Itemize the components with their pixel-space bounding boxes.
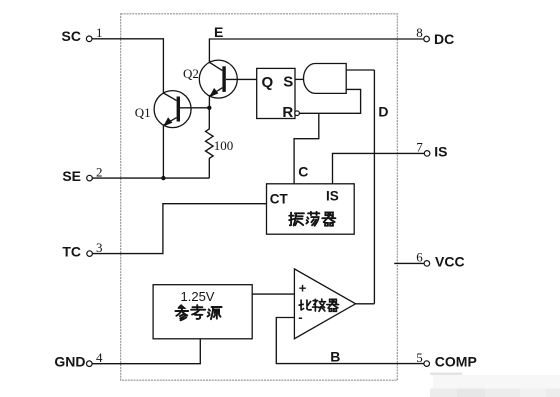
pin 7 terminal IS <box>416 140 447 160</box>
svg-text:CT: CT <box>270 192 289 207</box>
svg-text:VCC: VCC <box>435 253 465 269</box>
wire node D: comparator output to AND gate <box>373 70 375 304</box>
watermark remnant bottom right <box>430 373 560 397</box>
IC boundary dashed box <box>121 14 398 380</box>
svg-text:Q1: Q1 <box>135 105 151 120</box>
svg-text:E: E <box>214 24 223 40</box>
svg-text:1: 1 <box>96 25 103 40</box>
comparator label 比较器 (drawn glyphs) <box>299 299 338 311</box>
R input bubble <box>295 111 300 116</box>
resistor 100 <box>206 108 234 178</box>
wire node C: oscillator output branch <box>294 113 319 184</box>
svg-text:TC: TC <box>62 243 81 259</box>
wire node E: Q2 collector to pin 8 <box>209 39 423 62</box>
comparator U6 <box>294 269 355 339</box>
wire Q2 base to latch Q output <box>226 78 257 80</box>
wire AND input 1 from node D <box>346 69 374 71</box>
oscillator label 振荡器 (drawn glyphs) <box>289 212 335 226</box>
wire comparator output to node D <box>356 303 375 305</box>
svg-text:5: 5 <box>416 350 423 365</box>
wire pin4 GND to reference block <box>92 339 200 364</box>
svg-text:GND: GND <box>54 354 85 370</box>
wire pin 6 VCC stub <box>394 262 424 264</box>
wire Q1 base to node <box>180 107 209 109</box>
wire AND output to latch S input <box>295 78 304 80</box>
svg-text:R: R <box>282 104 293 121</box>
svg-text:SE: SE <box>62 168 81 184</box>
svg-text:8: 8 <box>416 25 423 40</box>
wire node B: comparator inverting input to pin 5 <box>276 318 424 364</box>
svg-text:7: 7 <box>416 140 423 155</box>
reference label 参考源 (drawn glyphs) <box>175 305 221 320</box>
wire pin1 SC to Q1 collector <box>92 39 163 93</box>
svg-text:S: S <box>283 73 293 90</box>
svg-text:3: 3 <box>96 240 103 255</box>
transistor Q2 <box>183 60 237 98</box>
svg-text:B: B <box>330 349 340 365</box>
wire pin 7 to oscillator IS input <box>333 153 425 183</box>
transistor Q1 <box>135 91 191 128</box>
pin 6 terminal VCC <box>416 250 464 270</box>
wire AND input 2 / latch R from oscillator <box>299 89 360 113</box>
pin 2 terminal SE <box>62 164 102 184</box>
junction dot Q1 emitter / SE <box>161 176 165 180</box>
AND gate U3 (output faces left into S) <box>304 64 347 94</box>
pin 4 terminal GND <box>54 350 103 370</box>
oscillator block U4 <box>267 184 355 234</box>
pin 3 terminal TC <box>62 240 102 260</box>
svg-text:C: C <box>298 164 308 180</box>
pin 5 terminal COMP <box>416 350 477 370</box>
svg-text:1.25V: 1.25V <box>181 289 215 304</box>
junction dot Q2 emitter / Q1 base / resistor <box>207 106 211 110</box>
reference block U5 1.25V <box>153 285 252 339</box>
wire pin2 SE line <box>92 177 209 179</box>
svg-text:SC: SC <box>62 28 81 44</box>
SR latch U2 <box>257 68 295 121</box>
svg-text:Q: Q <box>262 74 274 91</box>
wire Q1 emitter to SE line <box>162 125 164 178</box>
svg-text:6: 6 <box>416 250 423 265</box>
svg-text:COMP: COMP <box>435 354 477 370</box>
svg-text:Q2: Q2 <box>183 66 199 81</box>
svg-text:+: + <box>299 280 307 295</box>
svg-text:IS: IS <box>326 188 339 203</box>
svg-text:IS: IS <box>434 143 447 159</box>
wire pin3 TC to oscillator CT input <box>92 204 266 254</box>
pin 1 terminal SC <box>62 25 103 44</box>
svg-text:D: D <box>378 103 388 119</box>
svg-text:-: - <box>298 310 302 325</box>
pin 8 terminal DC <box>416 25 454 47</box>
svg-text:100: 100 <box>214 138 234 153</box>
svg-text:2: 2 <box>96 164 103 179</box>
svg-text:4: 4 <box>96 350 103 365</box>
wire Q2 emitter to Q1 base node <box>208 96 210 108</box>
wire reference output to comparator + input <box>252 293 294 295</box>
svg-text:DC: DC <box>434 31 454 47</box>
